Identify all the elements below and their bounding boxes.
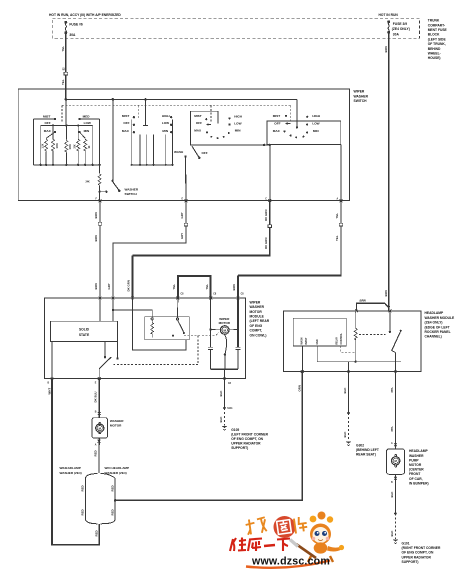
svg-text:YEL: YEL bbox=[335, 213, 339, 219]
pump motor M bbox=[392, 457, 400, 465]
svg-text:RED: RED bbox=[81, 485, 85, 491]
watermark mascot bbox=[308, 512, 344, 563]
wire WHT module return bbox=[52, 379, 99, 545]
svg-text:SUPPORT): SUPPORT) bbox=[231, 446, 248, 450]
wiper motor M bbox=[220, 326, 229, 335]
hwm bottom pin C bbox=[301, 370, 304, 373]
svg-text:SOLID: SOLID bbox=[79, 328, 90, 332]
svg-text:SUPPORT): SUPPORT) bbox=[402, 560, 419, 564]
wire GRY switch to module pin B bbox=[113, 201, 186, 298]
wire BRN labels and connector bbox=[94, 212, 102, 289]
junction S at fuse feed bbox=[65, 98, 68, 101]
svg-text:CHANNEL): CHANNEL) bbox=[425, 335, 442, 339]
delay bank MIST row wire bbox=[34, 118, 57, 165]
module top pin C bbox=[131, 297, 134, 300]
svg-text:M: M bbox=[99, 426, 102, 430]
svg-text:FUSE 3/9: FUSE 3/9 bbox=[393, 22, 407, 26]
hwm top pin A bbox=[388, 309, 391, 312]
svg-text:HOT IN RUN, ACCY (III) WITH A/: HOT IN RUN, ACCY (III) WITH A/P ENERGIZE… bbox=[49, 13, 121, 17]
svg-text:1.2K: 1.2K bbox=[43, 143, 45, 148]
svg-text:MIST: MIST bbox=[43, 114, 51, 118]
pump terminals bbox=[395, 455, 397, 467]
washer motor housing bbox=[92, 418, 108, 438]
svg-text:YEL: YEL bbox=[61, 46, 65, 52]
svg-text:W/HEADLAMP: W/HEADLAMP bbox=[60, 466, 81, 470]
module bottom pin B2 bbox=[48, 377, 54, 385]
relay coil bbox=[151, 320, 154, 338]
svg-text:S141: S141 bbox=[227, 407, 233, 410]
park switch blade bbox=[99, 357, 111, 379]
svg-text:WHT: WHT bbox=[47, 388, 51, 395]
motor right junction bbox=[229, 328, 239, 330]
svg-text:RED: RED bbox=[93, 450, 97, 456]
svg-text:BRN: BRN bbox=[94, 283, 98, 289]
svg-text:SWITCH: SWITCH bbox=[354, 99, 368, 103]
module top pin E bbox=[209, 297, 212, 300]
svg-text:INPUT: INPUT bbox=[306, 337, 308, 344]
svg-text:E: E bbox=[95, 383, 97, 385]
wire BLK pump down bbox=[390, 474, 396, 513]
rotary switch 2 frame bbox=[267, 121, 341, 145]
svg-text:MIST: MIST bbox=[273, 114, 281, 118]
mid bank common contact bbox=[143, 124, 148, 126]
ground G302 label bbox=[356, 443, 379, 456]
rotary 2 labels MIST OFF MAX bbox=[273, 114, 281, 133]
svg-text:MENT FUSE: MENT FUSE bbox=[428, 28, 448, 32]
svg-text:LOW: LOW bbox=[234, 121, 241, 125]
rotary 2 wiper arrow bbox=[286, 123, 291, 125]
pump pin B bbox=[391, 477, 397, 484]
hwm bottom pin D bbox=[347, 370, 350, 373]
mid bank branch wires bbox=[132, 120, 173, 165]
headlamp washer pump housing bbox=[386, 449, 404, 474]
module top pin B bbox=[112, 297, 115, 300]
wire rotary junction to pin C bbox=[269, 145, 271, 201]
solid state label bbox=[79, 328, 90, 337]
rotary 1 right contacts bbox=[228, 117, 230, 125]
svg-text:GND: GND bbox=[317, 339, 319, 344]
wire module pin C to relay contact bbox=[133, 298, 186, 350]
svg-text:B: B bbox=[95, 412, 97, 414]
svg-text:MAX: MAX bbox=[122, 129, 130, 133]
relay blade bbox=[172, 320, 185, 337]
fuse F6 bbox=[65, 21, 67, 34]
wire DK GRN switch to module pin C bbox=[133, 201, 271, 298]
svg-text:OF ENG: OF ENG bbox=[250, 324, 263, 328]
svg-text:WASHER: WASHER bbox=[409, 454, 424, 458]
svg-text:20K: 20K bbox=[75, 144, 77, 149]
hwm relay control dashed bbox=[341, 346, 356, 352]
svg-text:YEL: YEL bbox=[205, 284, 209, 290]
mid bank left contacts bbox=[133, 116, 135, 133]
pump label bbox=[409, 449, 429, 485]
svg-text:WASH: WASH bbox=[301, 337, 304, 344]
svg-text:C8: C8 bbox=[228, 383, 232, 385]
svg-text:DK GRN: DK GRN bbox=[264, 210, 268, 221]
svg-text:FUSE #6: FUSE #6 bbox=[69, 23, 83, 27]
headlamp washer module box bbox=[284, 311, 422, 372]
merged RED wire to junction bbox=[95, 524, 100, 546]
delay bank bottom bus bbox=[34, 164, 100, 166]
wire supply drop to mid switch common bbox=[145, 99, 147, 125]
headlamp washer module label bbox=[425, 311, 455, 339]
svg-text:BRN: BRN bbox=[360, 299, 367, 303]
svg-text:W/O HEADLAMP: W/O HEADLAMP bbox=[105, 466, 130, 470]
svg-text:MAX: MAX bbox=[44, 129, 52, 133]
wire supply drop to right rotary bbox=[296, 99, 298, 128]
mechanical linkage dashed line bbox=[62, 105, 290, 123]
svg-text:(EDGE OF LEFT: (EDGE OF LEFT bbox=[425, 325, 450, 329]
svg-text:MED: MED bbox=[83, 114, 91, 118]
mid bank labels MIST OFF MAX bbox=[122, 114, 130, 133]
trunk fuse block dashed box bbox=[52, 18, 419, 38]
option labels bbox=[60, 466, 130, 475]
module top pin D bbox=[176, 297, 179, 300]
motor bottom bus bbox=[211, 368, 238, 370]
svg-text:WIPER: WIPER bbox=[219, 317, 230, 321]
wire BLK dashed to G101 bbox=[390, 513, 396, 539]
svg-text:MOTOR: MOTOR bbox=[110, 423, 122, 427]
capacitor C2 bbox=[235, 347, 240, 349]
module bottom pin E2 bbox=[95, 377, 101, 385]
wire DK GRN labels and connector bbox=[127, 210, 272, 292]
wire DK BLU to washer motor bbox=[98, 379, 100, 418]
svg-text:C: C bbox=[265, 199, 267, 201]
svg-text:YEL: YEL bbox=[172, 284, 176, 290]
svg-text:ON COWL): ON COWL) bbox=[250, 333, 267, 337]
wire PPL hwm to pump bbox=[395, 372, 397, 449]
hwm inner labels bbox=[301, 333, 343, 345]
svg-text:C8: C8 bbox=[181, 294, 185, 296]
svg-text:TRUNK: TRUNK bbox=[428, 19, 440, 23]
switch pin E bbox=[182, 199, 188, 203]
WASH contact bbox=[174, 150, 187, 158]
svg-text:LOW: LOW bbox=[84, 121, 91, 125]
svg-text:MIN: MIN bbox=[162, 129, 168, 133]
mid bank bottom bus bbox=[132, 164, 173, 166]
svg-text:E: E bbox=[182, 199, 184, 201]
svg-text:(ZE4 ONLY): (ZE4 ONLY) bbox=[425, 321, 443, 325]
wire ORN to headlamp washer module bbox=[115, 372, 302, 501]
svg-text:M: M bbox=[395, 459, 398, 463]
svg-text:WHEEL-: WHEEL- bbox=[428, 52, 441, 56]
svg-text:WIPER: WIPER bbox=[354, 90, 365, 94]
svg-text:M: M bbox=[223, 328, 226, 332]
glyph wei bbox=[230, 538, 246, 552]
svg-text:MIST: MIST bbox=[194, 114, 202, 118]
svg-text:24K: 24K bbox=[86, 181, 91, 184]
svg-text:BLK: BLK bbox=[390, 530, 394, 537]
wiper washer switch box bbox=[18, 89, 349, 201]
svg-text:E2: E2 bbox=[63, 67, 65, 71]
svg-text:C8: C8 bbox=[241, 294, 245, 296]
delay wiper junction bbox=[98, 191, 107, 193]
wire BRN switch to module pin A bbox=[99, 201, 101, 298]
watermark sword bbox=[290, 540, 316, 559]
svg-text:SWITCH: SWITCH bbox=[125, 192, 138, 196]
svg-text:RED: RED bbox=[81, 509, 85, 515]
svg-text:HEADLAMP: HEADLAMP bbox=[409, 449, 428, 453]
wire WASH contact to pin E bbox=[185, 157, 188, 201]
jumper YEL between module pins bbox=[178, 276, 211, 298]
glyph pian bbox=[294, 516, 308, 534]
svg-text:DK GRN: DK GRN bbox=[127, 280, 131, 291]
wire PPL labels bbox=[390, 387, 394, 432]
wire BRN switch to module pin D bbox=[238, 201, 342, 298]
ground G105 label bbox=[231, 428, 268, 450]
wire below C1 bbox=[210, 350, 212, 369]
svg-text:YEL: YEL bbox=[61, 79, 65, 85]
svg-text:UPPER RADIATOR: UPPER RADIATOR bbox=[231, 441, 261, 445]
svg-text:30A: 30A bbox=[69, 33, 76, 37]
svg-text:FRONT: FRONT bbox=[409, 472, 420, 476]
svg-text:LOW: LOW bbox=[162, 121, 169, 125]
svg-text:F: F bbox=[96, 199, 98, 201]
wire YEL from fuse F6 to wiper switch bbox=[65, 33, 67, 100]
relay terminals bbox=[151, 318, 179, 320]
svg-text:MAX: MAX bbox=[273, 129, 281, 133]
wire module pin A to solid state bbox=[99, 298, 101, 321]
relay to motor dashed linkage bbox=[184, 333, 219, 336]
hwm wash input stub bbox=[301, 346, 303, 372]
hwm relay contact bbox=[389, 311, 391, 333]
washer motor label bbox=[110, 419, 124, 428]
trunk fuse block label bbox=[428, 19, 448, 61]
hwm ground bus bbox=[317, 361, 401, 372]
resistor R2 100K bbox=[52, 125, 59, 164]
rotary 1 labels MIST OFF MAX bbox=[194, 114, 202, 132]
svg-text:100K: 100K bbox=[70, 144, 72, 150]
junction washer feed bbox=[112, 98, 115, 101]
svg-text:WASHER (ZE4): WASHER (ZE4) bbox=[60, 471, 82, 475]
svg-text:MIN: MIN bbox=[313, 129, 319, 133]
svg-text:OFF: OFF bbox=[196, 121, 202, 125]
svg-text:G101: G101 bbox=[402, 542, 410, 546]
watermark url bbox=[246, 556, 330, 568]
svg-text:MODULE: MODULE bbox=[250, 315, 265, 319]
delay bank position labels MED LOW MIN bbox=[83, 114, 91, 132]
svg-text:(LEFT REAR: (LEFT REAR bbox=[250, 319, 270, 323]
svg-text:G302: G302 bbox=[356, 443, 364, 447]
pump pin A bbox=[391, 442, 397, 446]
svg-text:COMPART-: COMPART- bbox=[428, 23, 445, 27]
svg-text:BRN: BRN bbox=[94, 212, 98, 218]
svg-text:WASHER: WASHER bbox=[250, 305, 265, 309]
svg-text:PUMP: PUMP bbox=[409, 458, 419, 462]
svg-text:RELAY: RELAY bbox=[335, 336, 338, 344]
wire BRN right labels and connector bbox=[232, 213, 343, 291]
svg-text:IN BUMPER): IN BUMPER) bbox=[409, 481, 429, 485]
hwm top pin B bbox=[355, 309, 358, 312]
svg-text:C8: C8 bbox=[213, 294, 217, 296]
svg-text:MAX: MAX bbox=[194, 129, 202, 133]
glyph xia bbox=[277, 539, 290, 552]
svg-text:B: B bbox=[391, 482, 393, 484]
watermark badge bbox=[245, 516, 308, 538]
wire supply drop to delay ladder bbox=[65, 99, 67, 125]
svg-text:OFF: OFF bbox=[274, 121, 280, 125]
bus junction dots bbox=[40, 164, 101, 166]
resistor R4 20K bbox=[75, 125, 80, 164]
glyph ku bbox=[248, 539, 262, 552]
splice S141 bbox=[223, 407, 233, 411]
svg-text:OF CAR,: OF CAR, bbox=[409, 477, 423, 481]
relay box bbox=[145, 317, 189, 340]
split right path RED bbox=[110, 479, 115, 519]
rotary 2 arc contacts bbox=[290, 135, 305, 139]
splice to second module pin bbox=[357, 303, 390, 311]
rotary 1 junction dots bbox=[263, 144, 271, 146]
wire solid state to module pin B2 bbox=[51, 342, 53, 379]
rotary 1 wiper arrow bbox=[207, 124, 211, 126]
wire supply drop to washer switch bbox=[112, 99, 114, 180]
wire GRY labels and connector bbox=[107, 212, 188, 289]
splice on BLK bbox=[347, 412, 350, 415]
wire RED washer motor down bbox=[98, 438, 100, 473]
module top pin A bbox=[99, 297, 102, 300]
hwm coil to blade dashed bbox=[359, 334, 386, 336]
wire BLK module to G105 bbox=[219, 379, 225, 408]
svg-text:(LEFT SIDE: (LEFT SIDE bbox=[428, 37, 447, 41]
ground G302 bbox=[346, 441, 352, 446]
svg-text:MOTOR: MOTOR bbox=[219, 321, 231, 325]
svg-text:OF TRUNK,: OF TRUNK, bbox=[428, 42, 446, 46]
svg-text:PPL: PPL bbox=[390, 387, 394, 393]
wire module pin F to motor right bbox=[237, 298, 239, 347]
svg-text:WASH: WASH bbox=[174, 150, 184, 154]
svg-text:GRY: GRY bbox=[180, 233, 184, 239]
headlamp washer tap junction bbox=[114, 499, 117, 502]
MAX contact and resistor R1 1.2K bbox=[43, 131, 57, 165]
module bottom pin D2 bbox=[223, 377, 232, 385]
svg-text:MOTOR: MOTOR bbox=[409, 463, 422, 467]
junction mid bank feed bbox=[144, 98, 147, 101]
svg-text:CONTROL: CONTROL bbox=[341, 333, 343, 345]
park switch dashed linkage bbox=[114, 336, 199, 365]
svg-text:WASHER: WASHER bbox=[125, 187, 139, 191]
svg-text:HIGH: HIGH bbox=[312, 114, 321, 118]
svg-text:WASHER: WASHER bbox=[110, 419, 124, 423]
wire BRN from fuse F3/9 to headlamp washer module bbox=[388, 32, 390, 311]
split left path RED bbox=[81, 479, 86, 519]
svg-text:YEL: YEL bbox=[335, 235, 339, 241]
svg-text:(BEHIND LEFT: (BEHIND LEFT bbox=[356, 448, 379, 452]
rotary 2 labels HIGH LOW MIN bbox=[312, 114, 321, 133]
svg-text:STATE: STATE bbox=[79, 333, 90, 337]
svg-text:ORN: ORN bbox=[298, 385, 302, 391]
washer motor pin A bbox=[95, 440, 101, 447]
svg-text:A: A bbox=[95, 444, 97, 447]
rotary 2 left contacts bbox=[283, 115, 287, 133]
rotary 2 right contacts bbox=[306, 116, 308, 134]
hwm bottom pin E bbox=[394, 370, 397, 373]
svg-text:BRN: BRN bbox=[384, 290, 388, 296]
mid bank right contacts bbox=[170, 116, 172, 133]
svg-text:MOTOR: MOTOR bbox=[250, 310, 263, 314]
module top pin F bbox=[237, 297, 240, 300]
svg-text:OFF: OFF bbox=[123, 121, 129, 125]
svg-text:BRN: BRN bbox=[94, 235, 98, 241]
svg-text:WIPER: WIPER bbox=[250, 300, 261, 304]
wiper motor module box bbox=[45, 298, 246, 379]
svg-text:OFF: OFF bbox=[45, 121, 51, 125]
rotary switch 1 frame bbox=[191, 111, 270, 145]
rotary 1 labels HIGH LOW MIN bbox=[234, 114, 243, 132]
wire rotary 2 to pin A bbox=[340, 144, 342, 200]
svg-text:BLOCK: BLOCK bbox=[428, 33, 440, 37]
mid bank labels HIGH LOW MIN bbox=[162, 114, 171, 133]
hwm relay blade bbox=[392, 330, 402, 372]
wire module pin B to solid state and relay bbox=[112, 298, 152, 321]
svg-text:DK GRN: DK GRN bbox=[264, 238, 268, 249]
fuse F3/9 bbox=[388, 21, 390, 34]
svg-text:www.dzsc.com: www.dzsc.com bbox=[251, 556, 330, 568]
svg-text:GRY: GRY bbox=[180, 212, 184, 218]
svg-text:MIN: MIN bbox=[84, 129, 90, 133]
svg-text:BLK: BLK bbox=[343, 387, 347, 394]
svg-text:ROCKER PANEL: ROCKER PANEL bbox=[425, 330, 451, 334]
glyph yi bbox=[264, 545, 275, 546]
svg-text:WASHER: WASHER bbox=[354, 94, 369, 98]
hwm relay coil bbox=[354, 311, 357, 362]
svg-text:RED: RED bbox=[110, 485, 114, 491]
wire bus to module pin ground bbox=[224, 369, 226, 378]
svg-text:HOUSE): HOUSE) bbox=[428, 56, 441, 60]
delay bank OFF row wire bbox=[41, 124, 93, 165]
wire BLK hwm to G302 bbox=[343, 372, 349, 414]
washer motor terminals bbox=[99, 423, 101, 434]
supply bus inside switch bbox=[66, 98, 297, 100]
park switch contacts bbox=[104, 342, 119, 360]
washer switch label bbox=[125, 187, 139, 196]
wiper washer switch label bbox=[354, 90, 369, 103]
svg-text:COMPT,: COMPT, bbox=[250, 329, 263, 333]
svg-text:BLK: BLK bbox=[390, 491, 394, 498]
wire BLK dashed to G302 bbox=[343, 413, 349, 441]
wire below C2 bbox=[237, 350, 239, 369]
switch pin F bbox=[96, 199, 102, 203]
svg-text:30A: 30A bbox=[393, 33, 400, 37]
svg-text:BLK: BLK bbox=[219, 390, 223, 397]
svg-text:BLK: BLK bbox=[343, 431, 347, 438]
rotary 1 left contacts bbox=[205, 118, 208, 133]
delay bank position labels MIST OFF MAX bbox=[43, 114, 52, 132]
wire module pin D to relay armature bbox=[177, 298, 179, 318]
splice on pump ground bbox=[394, 512, 397, 515]
delay resistor 24K bbox=[86, 165, 102, 201]
svg-text:(ZE4 ONLY): (ZE4 ONLY) bbox=[392, 27, 410, 31]
rotary 1 arc contacts bbox=[210, 132, 229, 139]
svg-text:OF ENG COMPT, ON: OF ENG COMPT, ON bbox=[402, 551, 434, 555]
svg-text:BRN: BRN bbox=[384, 46, 388, 52]
solid state box bbox=[51, 321, 118, 341]
watermark brand glyphs wei ku yi xia bbox=[230, 538, 290, 552]
svg-text:HEADLAMP: HEADLAMP bbox=[425, 311, 444, 315]
svg-text:OF ENG COMPT, ON: OF ENG COMPT, ON bbox=[231, 437, 263, 441]
split bracket top bbox=[85, 474, 115, 479]
jumper YEL labels bbox=[172, 284, 244, 296]
ground G101 bbox=[393, 539, 399, 544]
wiper motor module label bbox=[250, 300, 270, 337]
svg-text:(LEFT FRONT CORNER: (LEFT FRONT CORNER bbox=[231, 432, 268, 436]
svg-text:REAR SEAT): REAR SEAT) bbox=[356, 453, 376, 457]
wire BLK dashed to ground bbox=[219, 408, 225, 426]
rotary 1 off blade bbox=[192, 146, 208, 159]
svg-text:BRN: BRN bbox=[232, 284, 236, 290]
svg-text:HIGH: HIGH bbox=[234, 114, 243, 118]
svg-text:GRY: GRY bbox=[107, 283, 111, 289]
svg-text:G105: G105 bbox=[231, 428, 239, 432]
